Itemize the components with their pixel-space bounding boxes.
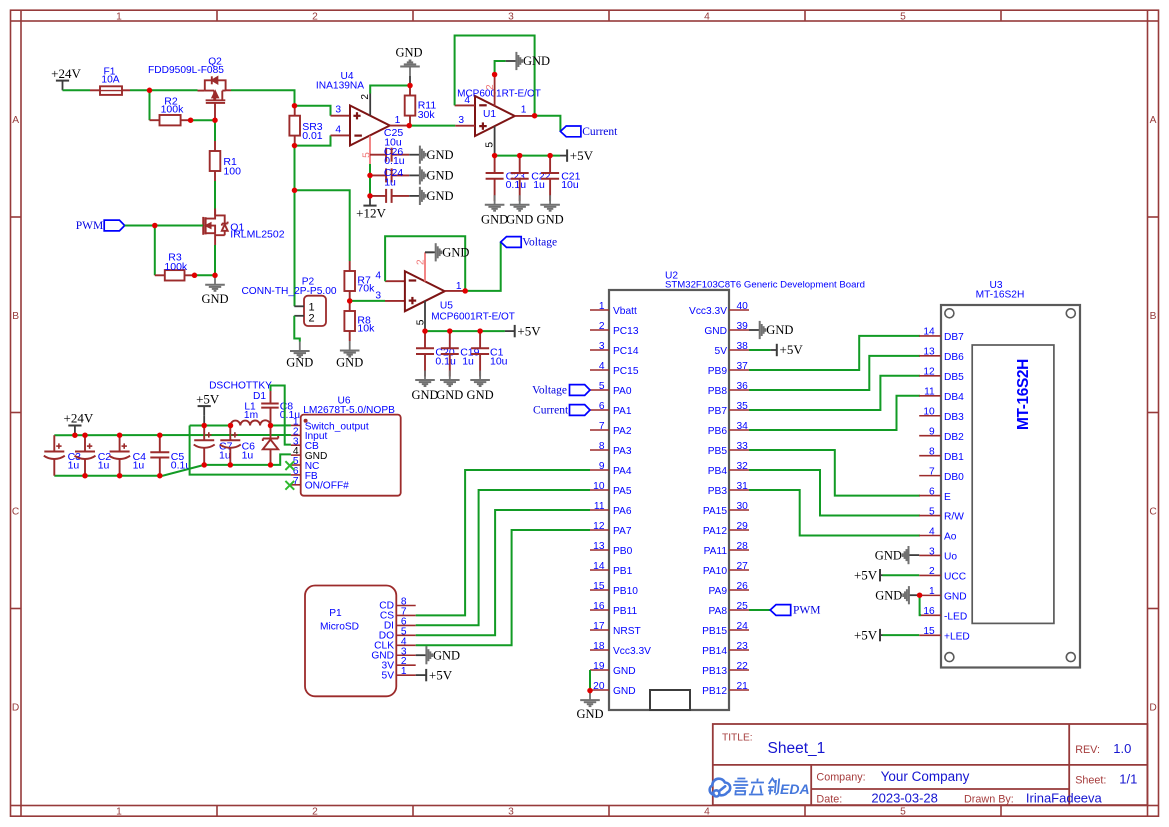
pin 37 PB9 of U2 [729, 369, 749, 371]
svg-text:PC13: PC13 [613, 326, 639, 337]
pin 7 PA2 of U2 [590, 429, 609, 431]
svg-text:+5V: +5V [854, 627, 878, 642]
svg-text:PB3: PB3 [708, 486, 728, 497]
svg-text:6: 6 [929, 486, 935, 497]
svg-text:PA10: PA10 [703, 566, 727, 577]
svg-text:10: 10 [923, 407, 935, 418]
svg-text:5: 5 [900, 807, 906, 818]
svg-text:D: D [1149, 702, 1156, 713]
ground GND below C20 [424, 371, 426, 380]
svg-text:GND: GND [537, 213, 564, 227]
pin 16 PB11 of U2 [590, 609, 609, 611]
pin 14 DB7 of U3 [919, 335, 941, 337]
net flag Current output [560, 126, 581, 137]
node junction C23 [492, 153, 498, 159]
svg-text:MicroSD: MicroSD [320, 622, 359, 633]
pin 5 of U1 [494, 126, 496, 155]
resistor R2 100k [150, 119, 160, 121]
wire PB4 to LCD R/W [749, 470, 920, 516]
svg-text:39: 39 [737, 321, 749, 332]
node junction C25-+12V [367, 193, 373, 199]
svg-text:3: 3 [599, 341, 605, 352]
wire R1 to Q1 drain [214, 181, 216, 210]
pin 14 PB1 of U2 [590, 569, 609, 571]
pin 15 +LED of U3 [919, 634, 941, 636]
resistor R8 10k [349, 301, 351, 311]
pin 1 output stub of U4 [390, 125, 409, 127]
capacitor C24 1u [370, 174, 386, 176]
ground GND below C22 [519, 195, 521, 204]
svg-text:+12V: +12V [356, 205, 386, 220]
svg-text:GND: GND [875, 548, 902, 562]
pin 20 GND of U2 [590, 689, 609, 691]
svg-text:2: 2 [929, 566, 935, 577]
svg-text:27: 27 [737, 561, 749, 572]
pin 3 Uo of U3 [919, 554, 941, 556]
net flag PWM input [104, 220, 125, 231]
ground GND below C21 [549, 195, 551, 204]
pin 40 Vcc3.3V of U2 [729, 309, 749, 311]
svg-text:DB6: DB6 [944, 352, 964, 363]
power flag +24V at cap bank [74, 426, 76, 436]
pin 6 E of U3 [919, 495, 941, 497]
svg-text:22: 22 [737, 661, 749, 672]
ground GND below C23 [494, 195, 496, 204]
svg-text:Vcc3.3V: Vcc3.3V [689, 306, 727, 317]
no-connect X on U6 pin5 [285, 461, 294, 470]
pin 9 PA4 of U2 [590, 469, 609, 471]
svg-text:+5V: +5V [570, 148, 594, 163]
ground GND flag above U5 [425, 251, 436, 253]
svg-text:GND: GND [523, 54, 550, 68]
svg-text:28: 28 [737, 541, 749, 552]
svg-text:1u: 1u [242, 449, 254, 461]
svg-text:2: 2 [360, 94, 371, 100]
node junction U1 output [532, 113, 538, 119]
svg-text:PC14: PC14 [613, 346, 639, 357]
pin 1 Switch_output of U6 [291, 424, 301, 426]
pin 29 PA12 of U2 [729, 529, 749, 531]
node junction C5 top [157, 432, 163, 438]
svg-text:25: 25 [737, 601, 749, 612]
wire U4 pin2 to GND node [370, 86, 410, 94]
node junction switch node top [268, 423, 274, 429]
transistor Q2 FDD9509L-F085 [198, 76, 226, 120]
capacitor C3 1u [53, 435, 55, 451]
svg-text:-LED: -LED [944, 612, 967, 623]
wire U1 output to Current flag [535, 116, 561, 132]
pin 11 PA6 of U2 [590, 509, 609, 511]
svg-text:PA2: PA2 [613, 426, 632, 437]
svg-text:3: 3 [375, 290, 381, 301]
svg-text:4: 4 [464, 95, 470, 106]
capacitor C20 0.1u [424, 331, 426, 348]
svg-text:1: 1 [456, 281, 462, 292]
svg-text:13: 13 [593, 541, 605, 552]
node junction C4 bottom [117, 473, 123, 479]
pin 6 PA1 of U2 [590, 409, 609, 411]
svg-text:PA9: PA9 [709, 586, 728, 597]
wire PB9 to LCD DB7 [749, 336, 920, 370]
node junction C24 [367, 173, 373, 179]
wire +24V to F1 [63, 89, 91, 91]
net flag Voltage to PA0 [570, 385, 591, 396]
capacitor C4 1u [119, 435, 121, 451]
svg-text:DB2: DB2 [944, 432, 964, 443]
connector P1 MicroSD [305, 586, 396, 697]
svg-text:DB0: DB0 [944, 472, 964, 483]
no-connect X on U6 pin7 [285, 481, 294, 490]
svg-text:19: 19 [593, 661, 605, 672]
pin 8 PA3 of U2 [590, 449, 609, 451]
svg-text:+5V: +5V [854, 567, 878, 582]
svg-text:GND: GND [506, 213, 533, 227]
svg-text:DB4: DB4 [944, 392, 964, 403]
capacitor C8 0.1u bootstrap [270, 391, 272, 404]
svg-text:+24V: +24V [51, 66, 81, 81]
ground GND flag above R11 [409, 67, 411, 76]
svg-text:A: A [1150, 115, 1157, 126]
pin 5 R/W of U3 [919, 515, 941, 517]
pin 19 GND of U2 [590, 669, 609, 671]
wire PB3 to LCD Ao [749, 490, 920, 536]
svg-text:Date:: Date: [816, 793, 842, 805]
capacitor C25 10u [370, 195, 386, 197]
pin 5 of U5 [424, 301, 426, 331]
svg-text:P1: P1 [329, 608, 342, 619]
connector P2 CONN-TH_2P-P5.00 [304, 296, 326, 326]
wire U5 output to Voltage flag [465, 242, 501, 291]
pin 6 FB of U6 [291, 474, 301, 476]
svg-text:PA1: PA1 [613, 406, 632, 417]
svg-text:5: 5 [599, 381, 605, 392]
svg-text:GND: GND [201, 292, 228, 306]
pin 22 PB13 of U2 [729, 669, 749, 671]
svg-text:Company:: Company: [816, 771, 865, 783]
wire PWM to Q1 gate [125, 225, 203, 227]
svg-text:18: 18 [593, 641, 605, 652]
svg-text:PA6: PA6 [613, 506, 632, 517]
svg-text:Vbatt: Vbatt [613, 306, 637, 317]
usb notch on U2 [650, 690, 690, 710]
svg-text:2: 2 [416, 259, 427, 265]
wire P1 CLK to PA7 [416, 530, 590, 645]
pin 5 of U4 V+ [369, 136, 371, 164]
svg-text:Your Company: Your Company [881, 769, 970, 784]
svg-text:1u: 1u [384, 176, 396, 188]
svg-text:+5V: +5V [429, 667, 453, 682]
svg-text:1u: 1u [68, 459, 80, 471]
node junction R11 bottom-output [406, 123, 412, 129]
wire R7R8 node to U5 pin3 [350, 300, 385, 302]
net flag PWM at PA8 [749, 609, 770, 611]
ground GND flag at U3 GND pin1 [909, 594, 920, 596]
ground GND below C19 [449, 371, 451, 380]
frame column ticks top [216, 10, 218, 21]
svg-text:PC15: PC15 [613, 366, 639, 377]
svg-text:PB4: PB4 [708, 466, 728, 477]
svg-text:17: 17 [593, 621, 605, 632]
pin 10 PA5 of U2 [590, 489, 609, 491]
pin 4 GND of U6 [291, 454, 301, 456]
ground GND flag at U2 pin39 [749, 329, 760, 331]
svg-text:20: 20 [593, 681, 605, 692]
svg-text:PB14: PB14 [702, 646, 727, 657]
wire tap to R7 [295, 190, 350, 261]
svg-text:30: 30 [737, 501, 749, 512]
power flag +5V at U1 rail [560, 155, 567, 157]
svg-text:2: 2 [308, 312, 314, 324]
pin 31 PB3 of U2 [729, 489, 749, 491]
wire R3 to ground node [195, 274, 216, 276]
svg-text:Sheet_1: Sheet_1 [768, 740, 826, 757]
svg-text:11: 11 [924, 387, 935, 398]
title block row divider [713, 764, 1148, 766]
pin 4 Ao of U3 [919, 535, 941, 537]
svg-text:38: 38 [737, 341, 749, 352]
transistor Q1 IRLML2502 [203, 209, 228, 246]
svg-text:12: 12 [593, 521, 605, 532]
svg-text:10A: 10A [101, 75, 119, 86]
svg-text:32: 32 [737, 461, 749, 472]
svg-text:4: 4 [929, 526, 935, 537]
pin 9 DB2 of U3 [919, 435, 941, 437]
node junction C6 bottom [228, 462, 234, 468]
node junction C6 top [228, 423, 234, 429]
svg-text:GND: GND [442, 246, 469, 260]
svg-text:5V: 5V [382, 670, 395, 681]
svg-text:4: 4 [599, 361, 605, 372]
svg-text:PA4: PA4 [613, 466, 632, 477]
svg-text:5: 5 [900, 11, 906, 22]
wire PWM node down to R3 [154, 226, 156, 276]
node junction C2 bottom [82, 473, 88, 479]
svg-text:29: 29 [737, 521, 749, 532]
svg-text:GND: GND [436, 388, 463, 402]
capacitor C26 0.1u [370, 154, 386, 156]
svg-text:DB1: DB1 [944, 452, 964, 463]
svg-text:4: 4 [704, 11, 710, 22]
svg-text:+LED: +LED [944, 632, 970, 643]
pin 24 PB15 of U2 [729, 629, 749, 631]
svg-text:D: D [12, 702, 19, 713]
svg-text:1: 1 [395, 115, 401, 126]
svg-text:PA8: PA8 [709, 606, 728, 617]
power flag +12V [369, 196, 371, 206]
svg-text:5: 5 [484, 142, 495, 148]
pin 4 stub of U5 [385, 280, 405, 282]
pin 2 PC13 of U2 [590, 329, 609, 331]
svg-text:PA0: PA0 [613, 386, 632, 397]
capacitor C22 1u [519, 156, 521, 173]
svg-text:FDD9509L-F085: FDD9509L-F085 [148, 65, 224, 76]
EasyEDA logo cloud [710, 779, 731, 797]
node junction U2 GND pins [587, 688, 593, 694]
node junction R3-Q1 source wire [192, 273, 198, 279]
op-amp U1 MCP6001RT-E/OT [475, 96, 515, 136]
svg-text:Sheet:: Sheet: [1075, 774, 1106, 786]
svg-text:21: 21 [737, 681, 749, 692]
svg-text:A: A [12, 115, 19, 126]
pin 8 DB1 of U3 [919, 455, 941, 457]
node junction C1 [477, 328, 483, 334]
svg-text:PB13: PB13 [702, 666, 727, 677]
wire U4 pin5 to +12V rail [369, 164, 371, 196]
svg-text:2: 2 [599, 321, 605, 332]
svg-text:100k: 100k [164, 261, 188, 273]
svg-text:GND: GND [336, 355, 363, 369]
svg-text:11: 11 [594, 501, 605, 512]
frame column ticks bottom [216, 806, 218, 817]
wire PB6 to LCD DB4 [749, 396, 920, 430]
resistor R11 30k [409, 86, 411, 96]
svg-text:Voltage: Voltage [532, 385, 567, 397]
svg-text:0.01: 0.01 [302, 130, 323, 142]
svg-text:PB9: PB9 [708, 366, 728, 377]
svg-text:2023-03-28: 2023-03-28 [871, 790, 938, 805]
svg-text:31: 31 [737, 481, 749, 492]
wire U2 pin19 GND to pin20 [589, 670, 591, 691]
svg-text:14: 14 [923, 327, 935, 338]
pin 2 of U5 [424, 252, 426, 281]
pin 30 PA15 of U2 [729, 509, 749, 511]
mounting hole bottom-right of U3 [1066, 653, 1075, 662]
mounting hole top-right of U3 [1066, 309, 1075, 318]
frame corner separators [20, 11, 22, 22]
pin 4 stub of U1 [455, 104, 475, 106]
pin 4 PC15 of U2 [590, 369, 609, 371]
svg-text:GND: GND [875, 588, 902, 602]
ground GND flag at C25 [409, 195, 420, 197]
svg-text:70k: 70k [357, 283, 375, 295]
svg-text:1: 1 [401, 666, 407, 677]
svg-text:GND: GND [433, 648, 460, 662]
svg-text:PA12: PA12 [703, 526, 727, 537]
title block rev column divider [1068, 724, 1070, 805]
svg-text:16: 16 [593, 601, 605, 612]
pin 34 PB6 of U2 [729, 429, 749, 431]
resistor R7 70k [349, 261, 351, 271]
ground GND flag at C26 [409, 154, 420, 156]
node junction C19 [447, 328, 453, 334]
svg-text:3: 3 [929, 546, 935, 557]
wire Q2 drain to SR3 branch [226, 89, 231, 91]
node junction C22 [517, 153, 523, 159]
node junction U1 pin2 [492, 72, 498, 78]
pin 1 output stub of U1 [515, 115, 535, 117]
svg-text:0.1u: 0.1u [384, 155, 405, 167]
mounting hole bottom-left of U3 [945, 653, 954, 662]
svg-text:PA11: PA11 [704, 546, 728, 557]
IC U2 STM32F103C8T6 Generic Development Board [609, 290, 729, 710]
svg-text:U1: U1 [483, 109, 496, 120]
wire F1 to Q2 [130, 89, 198, 91]
svg-text:+5V: +5V [517, 323, 541, 338]
svg-text:NRST: NRST [613, 626, 641, 637]
svg-text:EDA: EDA [780, 781, 810, 797]
svg-text:8: 8 [929, 446, 935, 457]
wire SR3 top to U4 pin3 [295, 106, 331, 116]
svg-text:Drawn By:: Drawn By: [964, 793, 1014, 805]
svg-text:9: 9 [929, 427, 935, 438]
svg-text:37: 37 [737, 361, 749, 372]
svg-text:PWM: PWM [793, 605, 820, 617]
pin 2 3V of P1 [396, 664, 415, 666]
node junction SR3-R7 tap [292, 188, 298, 194]
svg-text:3: 3 [335, 105, 341, 116]
wire +5V output rail [190, 425, 231, 427]
svg-text:Current: Current [582, 126, 618, 138]
title block logo cell divider [810, 765, 812, 805]
svg-text:PA7: PA7 [613, 526, 632, 537]
svg-text:CONN-TH_2P-P5.00: CONN-TH_2P-P5.00 [241, 286, 336, 297]
pin 36 PB8 of U2 [729, 389, 749, 391]
pin 1 stub of P2 [294, 305, 304, 307]
svg-text:ON/OFF#: ON/OFF# [305, 481, 349, 492]
svg-text:1.0: 1.0 [1113, 741, 1131, 756]
node junction R11 top [407, 83, 413, 89]
wire U1 pin2 to GND flag [495, 61, 506, 75]
svg-text:5: 5 [415, 319, 426, 325]
pin 8 CD of P1 [396, 605, 415, 607]
svg-text:10u: 10u [561, 179, 579, 191]
svg-text:Vcc3.3V: Vcc3.3V [613, 646, 651, 657]
svg-text:1u: 1u [219, 449, 231, 461]
pin 1 5V of P1 [396, 674, 415, 676]
svg-text:PB10: PB10 [613, 586, 638, 597]
title block date row divider [811, 788, 1069, 790]
svg-text:U5: U5 [440, 300, 453, 311]
op-amp U5 MCP6001RT-E/OT [405, 271, 445, 311]
frame row ticks left [11, 216, 22, 218]
wire +24V input rail [54, 434, 291, 436]
svg-text:LM2678T-5.0/NOPB: LM2678T-5.0/NOPB [303, 405, 395, 416]
svg-text:7: 7 [599, 421, 605, 432]
svg-text:3: 3 [508, 807, 514, 818]
wire junction down to R2 [149, 90, 151, 120]
svg-text:33: 33 [737, 441, 749, 452]
pin 3 PC14 of U2 [590, 349, 609, 351]
pin 33 PB5 of U2 [729, 449, 749, 451]
capacitor C21 10u [549, 156, 551, 173]
svg-text:GND: GND [481, 213, 508, 227]
svg-text:36: 36 [737, 381, 749, 392]
node junction C7 bottom [201, 462, 207, 468]
frame row ticks right [1148, 216, 1159, 218]
svg-text:PB15: PB15 [702, 626, 727, 637]
svg-text:0.1u: 0.1u [506, 179, 527, 191]
wire switch node to U6 pin1 [271, 424, 291, 426]
svg-text:GND: GND [613, 686, 636, 697]
pin 4 CLK of P1 [396, 644, 415, 646]
svg-text:PA15: PA15 [703, 506, 727, 517]
svg-text:DB7: DB7 [944, 332, 964, 343]
wire U5 pin2 to GND flag [425, 251, 434, 253]
display window of U3 [972, 345, 1054, 623]
wire P1 CS to PA4 [416, 470, 590, 615]
pin 1 output stub of U5 [445, 290, 466, 292]
svg-text:PB7: PB7 [708, 406, 728, 417]
pin 10 DB3 of U3 [919, 415, 941, 417]
svg-text:3: 3 [458, 115, 464, 126]
svg-text:+5V: +5V [196, 391, 220, 406]
node junction D1 bottom [268, 462, 274, 468]
pin 39 GND of U2 [729, 329, 749, 331]
power flag +5V at P1 pin1 [416, 674, 426, 676]
svg-text:PWM: PWM [76, 220, 103, 232]
node junction U5 output [462, 288, 468, 294]
svg-text:1: 1 [599, 301, 605, 312]
